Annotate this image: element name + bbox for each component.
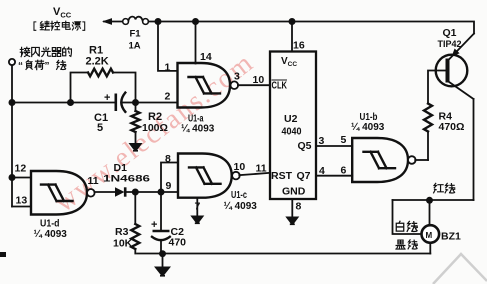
label black wire 黑线 xyxy=(396,240,417,249)
label R4 470ohm xyxy=(439,111,465,134)
junction R1-R2 right xyxy=(132,99,139,106)
label flasher line1 接闪光器的 xyxy=(20,47,71,57)
label BZ1 xyxy=(441,231,461,243)
U2 RST text xyxy=(271,170,293,182)
svg-text:CLK: CLK xyxy=(272,81,288,92)
label R3 10K xyxy=(113,226,133,250)
junction D1-C2 xyxy=(158,189,165,196)
wire collector down xyxy=(473,99,475,200)
svg-text:7: 7 xyxy=(195,201,201,213)
label U1-d xyxy=(34,218,68,241)
junction D1-R3 xyxy=(132,189,139,196)
junction rail-pin1 xyxy=(155,18,162,25)
pin 10 xyxy=(253,74,265,86)
svg-text:100Ω: 100Ω xyxy=(142,122,168,134)
pin 3 xyxy=(234,71,240,83)
resistor R1 xyxy=(71,69,136,103)
svg-text:5: 5 xyxy=(341,134,347,146)
svg-text:+: + xyxy=(104,92,110,104)
svg-text:12: 12 xyxy=(15,163,27,175)
label R1 2.2K xyxy=(86,45,109,68)
capacitor C1 xyxy=(104,92,136,112)
svg-text:10: 10 xyxy=(253,74,265,86)
wire pin8 branch xyxy=(161,163,178,193)
wire to pin2 xyxy=(136,102,178,104)
resistor R4 xyxy=(424,71,448,161)
label red wire 红线 xyxy=(434,183,455,193)
svg-text:R3: R3 xyxy=(115,226,129,238)
label R2 100ohm xyxy=(142,111,168,134)
svg-text:GND: GND xyxy=(282,186,306,198)
svg-text:3: 3 xyxy=(319,135,325,147)
svg-text:1A: 1A xyxy=(129,41,141,52)
input vertical wire xyxy=(11,65,13,206)
svg-text:BZ1: BZ1 xyxy=(441,231,461,243)
junction input-C1 row xyxy=(9,99,16,106)
svg-text:Q1: Q1 xyxy=(443,27,457,39)
edge artifact xyxy=(0,252,6,257)
svg-text:1: 1 xyxy=(165,62,171,74)
pin 9 xyxy=(166,180,172,192)
svg-text:5: 5 xyxy=(97,122,103,134)
svg-text:“: “ xyxy=(18,61,23,72)
pin 8 xyxy=(165,153,171,165)
label C2 470 xyxy=(169,226,187,249)
pin 4 U2Q7 xyxy=(319,165,325,177)
resistor R2 xyxy=(132,103,140,144)
svg-text:”: ” xyxy=(45,61,50,72)
svg-text:VCC: VCC xyxy=(281,56,297,68)
label F1 1A xyxy=(129,29,142,52)
wire pin1 branch xyxy=(158,22,178,71)
junction rail-U2pin16 xyxy=(289,18,296,25)
pin 13 xyxy=(16,195,28,207)
svg-text:16: 16 xyxy=(293,40,305,52)
svg-text:Q7: Q7 xyxy=(297,170,311,182)
buzzer BZ1 xyxy=(422,225,440,243)
svg-text:8: 8 xyxy=(296,201,302,213)
svg-text:¼ 4093: ¼ 4093 xyxy=(224,201,258,212)
junction red-buzzer xyxy=(426,197,433,204)
wire U1d out xyxy=(95,191,116,193)
svg-text:9: 9 xyxy=(166,180,172,192)
svg-text:¼ 4093: ¼ 4093 xyxy=(181,124,215,135)
resistor R3 xyxy=(131,192,139,254)
label load line2 负荷线 xyxy=(18,60,66,72)
svg-text:VCC: VCC xyxy=(53,6,72,20)
svg-text:¼ 4093: ¼ 4093 xyxy=(351,122,385,133)
wire pin7 xyxy=(196,198,198,216)
svg-text:11: 11 xyxy=(88,175,99,187)
Vcc rail wire xyxy=(149,22,474,34)
op U1-b nand gate xyxy=(352,138,415,182)
pin 11 U1d xyxy=(88,175,99,187)
wire U2 pin8 xyxy=(291,199,293,217)
svg-text:+: + xyxy=(151,219,157,231)
svg-text:U1-d: U1-d xyxy=(40,218,60,230)
pin 2 xyxy=(165,91,171,103)
label U1-c xyxy=(224,189,258,212)
wire pin13 xyxy=(12,206,31,208)
wire buzzer top xyxy=(429,200,431,225)
svg-text:4040: 4040 xyxy=(282,126,302,138)
svg-text:U1-c: U1-c xyxy=(231,189,247,201)
pin 11 xyxy=(256,163,267,175)
white wire loop xyxy=(393,200,422,234)
junction rail-pin14 xyxy=(192,18,199,25)
wire Q5 to pin5 xyxy=(316,145,352,147)
U2 GND text xyxy=(282,186,306,198)
label C1 5 xyxy=(94,112,108,134)
svg-text:8: 8 xyxy=(165,153,171,165)
op U1-a nand gate xyxy=(178,63,239,108)
svg-text:470: 470 xyxy=(169,237,187,249)
svg-text:RST: RST xyxy=(271,170,293,182)
pin 14 xyxy=(200,51,212,63)
pin 7 xyxy=(195,201,201,213)
svg-text:3: 3 xyxy=(234,71,240,83)
pin 1 xyxy=(165,62,171,74)
junction C1-R1 left xyxy=(67,99,74,106)
pin 5 xyxy=(341,134,347,146)
label U1-b xyxy=(351,111,385,133)
transistor Q1 xyxy=(436,34,474,100)
ground U1-c xyxy=(190,216,204,224)
pin 3 U2Q5 xyxy=(319,135,325,147)
U2 CLK text xyxy=(272,81,288,92)
wire U1b out to R4 xyxy=(415,159,428,161)
pin 6 xyxy=(341,165,347,177)
wire Q7 to pin6 xyxy=(316,175,352,177)
U2 name xyxy=(282,113,302,138)
svg-text:10K: 10K xyxy=(113,238,133,250)
wire U1a out to CLK xyxy=(238,84,270,86)
svg-text:10: 10 xyxy=(234,161,246,173)
pin 10 U1c xyxy=(234,161,246,173)
svg-text:¼ 4093: ¼ 4093 xyxy=(34,229,68,240)
pin 12 xyxy=(15,163,27,175)
U2 Q7 text xyxy=(297,170,311,182)
U2 Q5 text xyxy=(298,140,312,152)
svg-text:TIP42: TIP42 xyxy=(438,39,462,50)
diode D1 xyxy=(115,187,178,196)
svg-text:2.2K: 2.2K xyxy=(86,56,109,68)
input terminal xyxy=(9,59,15,65)
op U1-c nand gate xyxy=(178,154,240,198)
op U1-d nand gate xyxy=(31,171,95,215)
svg-text:2: 2 xyxy=(165,91,171,103)
svg-text:D1: D1 xyxy=(114,162,128,174)
wire buzzer bottom xyxy=(429,243,431,254)
junction input-pin12 xyxy=(9,174,16,181)
U2 Vcc text xyxy=(281,56,297,68)
bottom rail black wire xyxy=(137,253,430,255)
capacitor C2 xyxy=(151,192,170,254)
svg-text:13: 13 xyxy=(16,195,28,207)
label white wire 白线 xyxy=(396,221,417,231)
svg-text:U2: U2 xyxy=(284,113,298,125)
svg-text:1N4686: 1N4686 xyxy=(103,174,150,185)
svg-text:M: M xyxy=(426,231,433,240)
ground U2 xyxy=(285,217,299,225)
corner watermark xyxy=(433,254,487,284)
label U1-a xyxy=(181,113,215,135)
svg-text:470Ω: 470Ω xyxy=(439,121,465,133)
ground bottom rail xyxy=(154,254,171,276)
label Q1 TIP42 xyxy=(438,27,462,50)
wire pin14 branch xyxy=(195,22,197,64)
watermark xyxy=(49,47,260,219)
ground R2 xyxy=(129,143,143,151)
arrow to Vcc xyxy=(102,18,123,25)
label D1 1N4686 xyxy=(103,162,150,185)
wire input to C1 xyxy=(12,102,116,104)
svg-text:4: 4 xyxy=(319,165,325,177)
Vcc power label xyxy=(53,6,72,20)
pin 8 U2 xyxy=(296,201,302,213)
svg-text:6: 6 xyxy=(341,165,347,177)
svg-text:14: 14 xyxy=(200,51,212,63)
red wire xyxy=(393,199,474,201)
wire U2 pin16 xyxy=(291,22,293,52)
label keyed-supply 键控电源 xyxy=(34,21,85,30)
wire pin12 xyxy=(12,177,31,179)
svg-text:Q5: Q5 xyxy=(298,140,312,152)
IC U2 box xyxy=(270,52,316,200)
wire U1c out to RST xyxy=(239,173,270,175)
svg-text:F1: F1 xyxy=(130,29,142,40)
pin 16 xyxy=(293,40,305,52)
svg-text:11: 11 xyxy=(256,163,267,175)
junction bottom-ground xyxy=(159,250,166,257)
fuse F1 xyxy=(123,17,149,25)
